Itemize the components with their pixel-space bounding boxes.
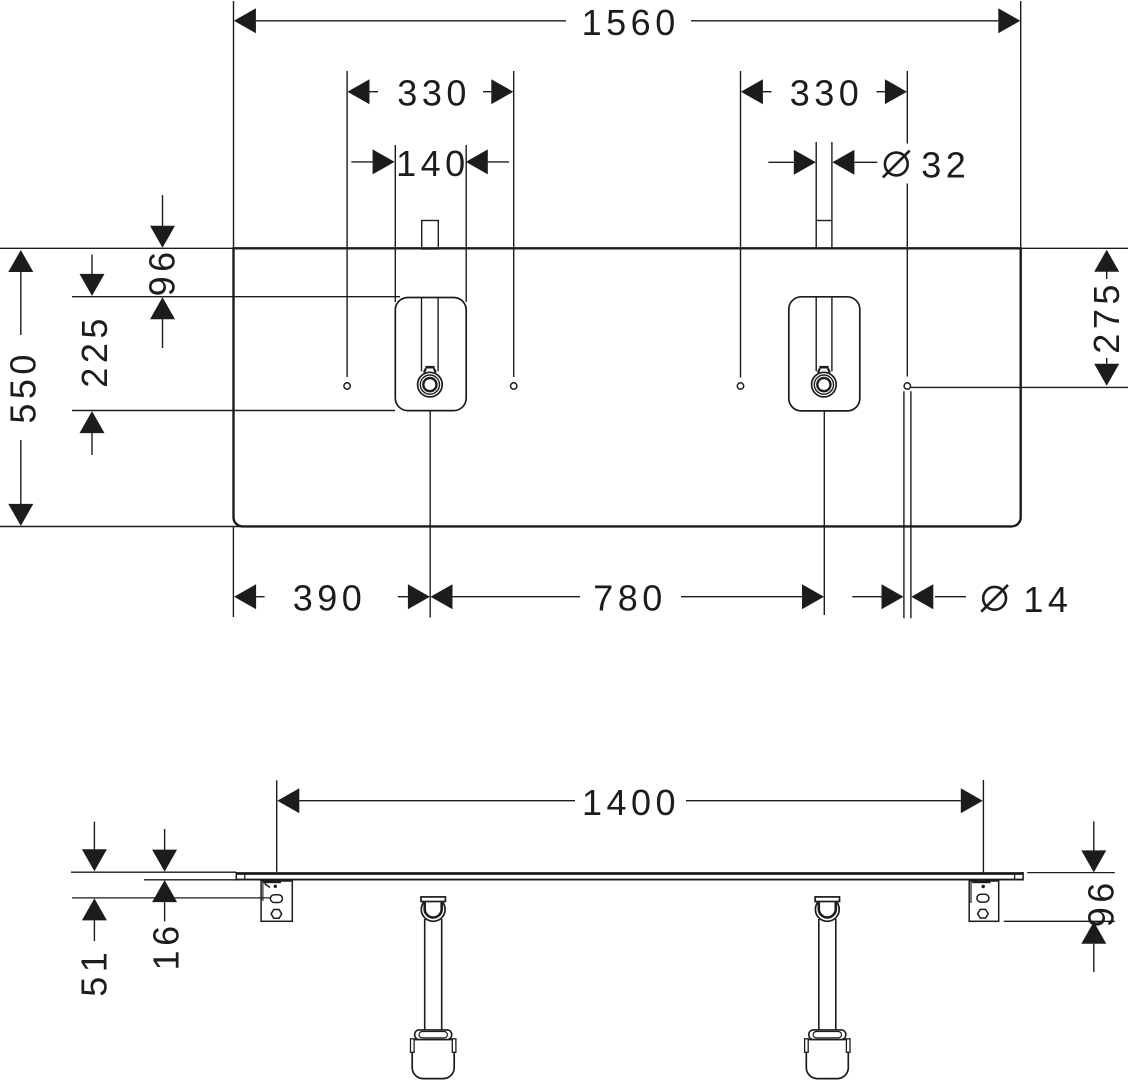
left cutout rounded rectangle — [395, 298, 466, 411]
extension line: 1560 right — [1020, 1, 1022, 248]
dimension 780 — [431, 578, 825, 619]
svg-text:225: 225 — [74, 314, 115, 388]
right cutout rounded rectangle — [789, 297, 860, 411]
countertop outline (plan view) — [234, 248, 1021, 526]
svg-text:96: 96 — [1080, 878, 1121, 927]
extension line: bottom edge left (550 dim) — [0, 526, 243, 528]
extension line: right hole to right margin (275 dim) — [911, 386, 1128, 388]
svg-text:780: 780 — [593, 578, 667, 619]
dimension 140 — [351, 143, 509, 184]
left cutout slot lines — [421, 298, 423, 372]
extension line: bracket slot (51 dim) — [72, 897, 271, 899]
slab end ticks — [235, 872, 237, 881]
left drain circles — [418, 372, 443, 397]
svg-text:330: 330 — [790, 73, 864, 114]
extension line: 330-left dim, right — [513, 71, 515, 377]
extension lines: O14 hole — [903, 391, 905, 618]
dimension O14 — [852, 579, 1072, 620]
slab top line — [236, 872, 1023, 875]
extension line: top edge left (550 dim) — [0, 247, 234, 249]
extension line: right drain centerline — [823, 411, 825, 615]
dimension 225 — [74, 255, 115, 456]
svg-text:16: 16 — [145, 921, 186, 970]
dimension 96 front view — [1080, 821, 1121, 972]
dimension 96 top view — [142, 195, 183, 348]
slab bottom line — [236, 879, 1023, 881]
dimension O32 — [768, 145, 970, 186]
dimension 330 right — [741, 73, 907, 114]
extension line: 1560 left — [233, 1, 235, 248]
extension line: 390 dim left (below plan) — [232, 526, 234, 617]
dimension 390 — [234, 578, 430, 619]
left drain connector hat — [425, 366, 434, 369]
svg-text:32: 32 — [921, 145, 970, 186]
extension line: cutout bottom (225 dim) — [72, 410, 395, 412]
right wall bracket — [969, 881, 999, 921]
svg-text:390: 390 — [293, 578, 367, 619]
extension line: bracket bottom right (96 dim) — [1004, 920, 1115, 922]
right drain circles — [812, 372, 837, 397]
extension line: slab bottom (16 dim) — [144, 879, 261, 881]
extension line: 140 dim, right — [465, 145, 467, 302]
extension line: cutout top (96/225 dims) — [72, 296, 400, 298]
extension line: 330-right dim, left — [740, 71, 742, 378]
svg-text:51: 51 — [74, 948, 115, 997]
dimension 16 — [145, 829, 186, 970]
dimension 1560 — [234, 2, 1020, 43]
extension line: 330-right dim, right — [906, 71, 908, 144]
extension line: 1400 left — [276, 780, 278, 872]
dimension 1400 — [277, 782, 983, 823]
svg-text:550: 550 — [2, 350, 43, 424]
faucet hole rectangle left basin — [422, 221, 439, 250]
right drain connector hat — [819, 366, 828, 369]
svg-text:330: 330 — [397, 73, 471, 114]
right cutout slot lines — [815, 297, 817, 372]
svg-text:14: 14 — [1023, 579, 1072, 620]
extension line: slab top right (96 dim) — [1027, 872, 1115, 874]
svg-text:140: 140 — [396, 143, 470, 184]
extension line: 330-left dim, left — [346, 71, 348, 377]
svg-text:1560: 1560 — [582, 2, 680, 43]
dimension 330 left — [348, 73, 514, 114]
dimension 51 — [74, 822, 115, 997]
dimension 275 — [1086, 250, 1127, 386]
left siphon — [411, 897, 456, 1079]
extension line: 1400 right — [982, 780, 984, 873]
svg-text:275: 275 — [1086, 280, 1127, 354]
dimension 550 — [2, 250, 43, 526]
svg-text:1400: 1400 — [582, 782, 680, 823]
left wall bracket — [261, 881, 292, 921]
extension line: slab top to left (51/16 dims) — [71, 871, 236, 873]
right siphon — [805, 897, 850, 1079]
extension line: left drain centerline — [429, 411, 431, 618]
svg-text:96: 96 — [142, 247, 183, 296]
faucet slot right basin with extension to O32 dim — [815, 142, 817, 249]
extension line: top edge right (275 dim) — [1021, 247, 1128, 249]
extension line: 140 dim, left — [394, 145, 396, 302]
small fixing holes O14 — [344, 383, 350, 389]
